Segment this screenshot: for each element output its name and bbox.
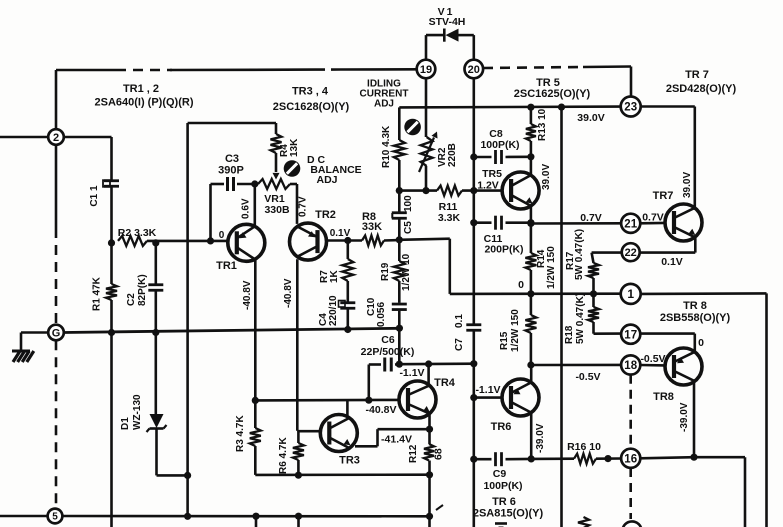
wire R8 right [384, 239, 399, 242]
svg-text:1/2W 150: 1/2W 150 [546, 246, 557, 289]
svg-text:16: 16 [624, 453, 637, 465]
wire C6 left drop [367, 365, 370, 401]
svg-text:R13 10: R13 10 [537, 108, 548, 141]
wire -1.1V segment [399, 362, 474, 365]
svg-text:R10 4.3K: R10 4.3K [381, 125, 392, 168]
svg-text:-40.8V: -40.8V [366, 404, 397, 416]
svg-text:-40.8V: -40.8V [283, 278, 294, 308]
label TR5 [477, 168, 502, 192]
svg-text:1K: 1K [329, 269, 340, 283]
wire 1 to right edge [641, 293, 767, 527]
junction C10 column G-line [396, 325, 403, 332]
wire R4 to wiper arrow [273, 153, 280, 180]
svg-text:39.0V: 39.0V [577, 112, 604, 124]
junction R16 right [604, 455, 611, 462]
junction bias column 5-line [184, 513, 191, 520]
svg-text:200P(K): 200P(K) [484, 244, 523, 256]
svg-text:3.3K: 3.3K [438, 212, 461, 224]
svg-text:220B: 220B [447, 143, 458, 167]
label -39.0V TR8 [679, 402, 690, 432]
wire left arm of node 2 [0, 136, 48, 139]
wire G line [64, 328, 400, 332]
node G [48, 325, 64, 341]
resistor R17 5W 0.47(K) [565, 229, 599, 294]
label 0.6V [241, 198, 252, 219]
wire node19 down [425, 78, 428, 138]
label TR8 [653, 391, 674, 403]
wire C10 to C6 wire [398, 311, 401, 364]
wire 18 to TR8 base [641, 364, 665, 367]
svg-text:R15: R15 [499, 331, 510, 350]
wire G left arm [21, 333, 48, 352]
junction C3 VR1 TR1-emitter [251, 180, 258, 187]
adjust IDLING CURRENT [404, 119, 421, 136]
svg-text:-39.0V: -39.0V [535, 423, 546, 453]
junction C8 left [470, 153, 477, 160]
wire R2-wire to R1 [110, 243, 113, 284]
svg-text:C7: C7 [454, 338, 465, 351]
svg-text:2SA815(O)(Y): 2SA815(O)(Y) [473, 508, 544, 520]
capacitor C3 390P [211, 153, 255, 191]
svg-text:ADJ: ADJ [316, 174, 337, 186]
node 1 [621, 284, 641, 304]
node 20 [465, 60, 484, 79]
svg-text:D1: D1 [120, 417, 131, 430]
junction TR8 collector 16-wire [690, 454, 697, 461]
svg-text:ADJ: ADJ [374, 99, 394, 110]
capacitor C11 200P(K) [474, 216, 531, 256]
wire node 2 to C1 corner [64, 136, 112, 139]
junction R8 at C5 column [396, 236, 403, 243]
label 0 at TR1 base [219, 230, 225, 241]
wire 17 to TR8 emitter [641, 334, 695, 351]
svg-text:R6 4.7K: R6 4.7K [278, 437, 289, 474]
svg-text:0.7V: 0.7V [298, 196, 309, 217]
junction R7 top [344, 237, 351, 244]
transistor TR2 [290, 223, 327, 260]
svg-text:19: 19 [420, 64, 432, 76]
svg-text:2SC1628(O)(Y): 2SC1628(O)(Y) [273, 101, 350, 113]
svg-text:C1 1: C1 1 [89, 185, 100, 207]
junction C8 right [527, 153, 534, 160]
label 0.7V left [580, 212, 602, 224]
label TR2 [315, 209, 336, 221]
resistor R16 10 [567, 441, 601, 464]
node 19 [417, 60, 436, 79]
wire 0.7V to node 21 [531, 222, 621, 225]
svg-text:TR6: TR6 [491, 421, 512, 433]
wire C2 top lead [155, 243, 158, 284]
wire 17-wire left [594, 332, 622, 335]
capacitor partial bottom [495, 524, 507, 527]
transistor TR7 [665, 204, 702, 241]
svg-text:100P(K): 100P(K) [483, 480, 522, 492]
junction TR4 emitter step wire [426, 426, 433, 433]
transistor TR5 [502, 172, 539, 209]
wire stub below 5-line a [255, 516, 258, 527]
capacitor C8 100P(K) [474, 128, 531, 164]
rheostat VR2 220B [419, 132, 458, 173]
node 17 [621, 325, 640, 344]
wire TR5 emitter down [530, 207, 533, 254]
wire emitter rail [255, 473, 429, 476]
junction TR4 collector stub [425, 360, 432, 367]
label -0.5V left [575, 371, 600, 383]
svg-text:TR2: TR2 [315, 209, 336, 221]
potentiometer VR1 330B [258, 179, 297, 216]
resistor R12 68 [408, 444, 445, 463]
svg-text:-41.4V: -41.4V [381, 434, 412, 446]
junction TR1 collector at -40.8V wire [252, 397, 259, 404]
wire top rail from node 2 [56, 70, 116, 137]
junction 0.7V tap [527, 220, 534, 227]
wire R11wire to C5 [398, 191, 401, 212]
wire C1 to R2 wire [110, 188, 113, 244]
junction C11 left [470, 219, 477, 226]
svg-text:1/2W 150: 1/2W 150 [510, 309, 521, 352]
resistor R14 1/2W 150 [525, 246, 557, 289]
label TR1 [216, 260, 237, 272]
diode D1 WZ-130 [120, 394, 167, 432]
capacitor C10 0.056 [366, 297, 407, 327]
label 0.1V TR7 [661, 256, 683, 268]
label 0 at R14 [518, 279, 524, 291]
wire 22-wire left [592, 251, 622, 254]
wire R7 to C4 [346, 281, 349, 302]
wire TR3 emitter step [355, 429, 430, 446]
transistor TR6 [502, 379, 539, 416]
label V1 [429, 6, 466, 28]
junction -1.1V at C7 column [470, 360, 477, 367]
label -39.0V TR6 [535, 423, 546, 453]
label TR3,4 type [273, 86, 350, 114]
wire top rail right [340, 68, 418, 71]
resistor R4 13K [271, 134, 301, 157]
svg-text:STV-4H: STV-4H [429, 16, 466, 28]
junction C11 right [527, 219, 534, 226]
ground [12, 351, 34, 362]
label TR7 [653, 190, 674, 202]
wire G to D1 [155, 333, 158, 415]
svg-text:5: 5 [52, 512, 58, 523]
svg-text:0.7V: 0.7V [642, 212, 664, 224]
svg-text:-1.1V: -1.1V [475, 384, 500, 396]
svg-text:0: 0 [518, 279, 524, 291]
svg-text:17: 17 [624, 329, 637, 341]
svg-text:390P: 390P [218, 165, 244, 177]
resistor R2 3.3K [118, 227, 157, 246]
wire R13 to C8 junction [530, 141, 533, 174]
label -40.8V TR2 [283, 278, 294, 308]
svg-text:R1 47K: R1 47K [92, 276, 103, 311]
resistor R18 5W 0.47(K) [564, 293, 599, 344]
svg-text:0.056: 0.056 [376, 302, 387, 327]
capacitor C7 0.1 [454, 314, 481, 351]
wire R16 to node 16 [596, 457, 622, 460]
transistor TR3 [320, 415, 357, 452]
node bottom partial [622, 521, 641, 527]
svg-text:TR1: TR1 [216, 260, 237, 272]
wire dashed below 16 [629, 468, 632, 519]
resistor R8 33K [362, 236, 384, 246]
svg-text:18: 18 [624, 360, 637, 372]
junction C7 column C9 wire [470, 456, 477, 463]
junction R17R18 0-wire [590, 290, 597, 297]
resistor R3 4.7K [235, 400, 261, 475]
svg-text:TR4: TR4 [434, 377, 456, 389]
resistor R13 zigzag [526, 108, 548, 141]
label 39.0V TR7 [682, 172, 693, 198]
junction R14 0-wire [527, 290, 534, 297]
label -1.1V TR6 [475, 384, 500, 396]
resistor R15 1/2W 150 [499, 294, 536, 352]
wire TR4 collector stub [427, 364, 430, 385]
svg-text:-40.8V: -40.8V [242, 280, 253, 310]
svg-text:2SC1625(O)(Y): 2SC1625(O)(Y) [514, 88, 591, 100]
svg-text:2SD428(O)(Y): 2SD428(O)(Y) [666, 83, 737, 95]
wire 39V rail corner [398, 107, 401, 140]
svg-text:WZ-130: WZ-130 [132, 394, 143, 430]
wire dashed 20 to 23 corner [483, 67, 631, 97]
wire D1 bottom [157, 429, 188, 476]
junction R12 column 5-line [426, 513, 433, 520]
svg-text:39.0V: 39.0V [541, 164, 552, 190]
wire top rail dashed segment [116, 69, 172, 72]
wire 21 to TR7 base [641, 222, 665, 225]
junction C2 G-line [152, 329, 159, 336]
svg-text:TR5: TR5 [482, 168, 502, 180]
svg-text:0.6V: 0.6V [241, 198, 252, 219]
wire TR8 collector down [693, 383, 696, 458]
wire bias column [186, 123, 189, 516]
wire C7 column lower [472, 332, 475, 527]
diode V1 STV-4H [426, 29, 474, 62]
svg-text:C5: C5 [403, 221, 414, 234]
label TR3 [339, 455, 360, 467]
label TR5 type [514, 77, 591, 100]
label 0.1V TR2 base [330, 228, 351, 239]
svg-text:0.7V: 0.7V [580, 212, 602, 224]
svg-text:R18: R18 [564, 325, 575, 344]
label -0.5V TR8 [640, 353, 665, 365]
svg-text:-1.1V: -1.1V [399, 367, 424, 379]
svg-text:R16 10: R16 10 [567, 441, 601, 453]
svg-text:1/2W 10: 1/2W 10 [401, 253, 412, 291]
svg-text:82P(K): 82P(K) [137, 274, 148, 306]
wire dashed 18 to 16 [629, 375, 632, 449]
junction 39V rail output column [558, 104, 565, 111]
wire C2 to G line [155, 292, 158, 333]
wire TR2 base to R8 [327, 239, 363, 242]
wire 5-line left [0, 515, 48, 518]
svg-text:-0.5V: -0.5V [575, 371, 600, 383]
wire R13 top lead [530, 107, 533, 124]
wire TR6 base [474, 396, 502, 399]
svg-text:22P/500(K): 22P/500(K) [361, 346, 415, 358]
wire 16-wire drop right [694, 457, 745, 527]
svg-text:330B: 330B [264, 204, 290, 216]
svg-text:G: G [52, 327, 61, 339]
node 2 [48, 129, 64, 145]
wire TR4 emitter down [428, 414, 431, 527]
svg-text:R2 3.3K: R2 3.3K [118, 227, 157, 239]
label 0.7V TR2 [298, 196, 309, 217]
junction C7 column TR6 base [470, 394, 477, 401]
transistor TR8 [665, 348, 702, 385]
svg-text:C3: C3 [225, 153, 239, 165]
resistor R19 1/2W 10 [380, 253, 412, 291]
capacitor C4 220/10 [318, 295, 355, 326]
junction TR6 collector C9 wire [528, 455, 535, 462]
label 39.0V TR5 [541, 164, 552, 190]
svg-text:TR3: TR3 [339, 455, 360, 467]
junction D1 wire on bias column [184, 472, 191, 479]
svg-text:TR7: TR7 [653, 190, 674, 202]
junction R2 left [108, 239, 115, 246]
junction C4 G-line [344, 326, 351, 333]
label 0 TR8 [698, 337, 704, 349]
capacitor C6 22P/500(K) [369, 358, 400, 372]
capacitor C9 100P(K) [483, 452, 522, 492]
label R8 33K [362, 211, 382, 233]
svg-text:21: 21 [624, 218, 637, 230]
label TR6 [491, 421, 512, 433]
wire TR6 emitter up [530, 365, 533, 382]
junction R10 R11-wire [396, 187, 403, 194]
wire TR4 base wire [255, 399, 398, 402]
svg-text:100: 100 [403, 195, 414, 212]
svg-text:39.0V: 39.0V [682, 172, 693, 198]
wire C3 left drop [209, 184, 212, 241]
junction stub b [295, 513, 302, 520]
resistor R11 3.3K [399, 186, 502, 224]
svg-text:-0.5V: -0.5V [640, 353, 665, 365]
junction C3 drop on base wire [207, 237, 214, 244]
wire dashed column node G to 5 [55, 340, 58, 508]
svg-text:20: 20 [468, 64, 480, 76]
capacitor C1 [89, 180, 119, 206]
svg-text:2SB558(O)(Y): 2SB558(O)(Y) [660, 312, 731, 324]
wire TR1 emitter up [254, 184, 257, 227]
label -40.8V TR1 [242, 280, 253, 310]
junction R13 top [527, 104, 534, 111]
junction 20col R11-wire [470, 187, 477, 194]
svg-text:C2: C2 [126, 293, 137, 306]
wire 5-line right [62, 515, 427, 518]
svg-text:TR1 , 2: TR1 , 2 [123, 83, 159, 95]
label IDLING CURRENT ADJ [360, 79, 409, 110]
wire 0-volt line [450, 292, 621, 295]
svg-text:TR 6: TR 6 [492, 496, 516, 508]
label TR1,2 type [94, 83, 193, 109]
wire top rail middle [170, 68, 316, 71]
svg-text:0.1: 0.1 [454, 314, 465, 328]
label -41.4V [381, 434, 412, 446]
wire VR2 to R11 wire [425, 166, 428, 191]
capacitor C5 100 [392, 195, 414, 234]
wire C9 wire to R16 [531, 457, 574, 460]
wire output column [560, 107, 563, 527]
resistor R7 1K [319, 241, 353, 284]
svg-text:5W 0.47(K): 5W 0.47(K) [574, 229, 585, 280]
resistor partial bottom [578, 517, 589, 527]
wire TR2 collector down [296, 259, 299, 431]
svg-text:TR3 , 4: TR3 , 4 [292, 86, 329, 98]
wire TR3 collector stub [346, 400, 349, 416]
label TR4 [434, 377, 456, 389]
svg-text:33K: 33K [362, 221, 382, 233]
svg-text:2: 2 [53, 132, 59, 144]
svg-text:220/10: 220/10 [328, 295, 339, 326]
node 21 [621, 214, 640, 233]
junction R1 G-line [108, 329, 115, 336]
junction 19col R11-wire [422, 187, 429, 194]
svg-text:0.1V: 0.1V [661, 256, 683, 268]
wire TR6 collector down [530, 414, 533, 459]
junction R12 bottom [426, 471, 433, 478]
wire C9 to TR6 collector [506, 458, 532, 461]
wire R14 to 0 wire [530, 270, 533, 294]
wire R1 to G line [110, 300, 113, 333]
wire R2 to TR1 base [147, 240, 229, 243]
svg-text:TR8: TR8 [653, 391, 674, 403]
svg-text:TR 7: TR 7 [685, 69, 709, 81]
junction TR6 emitter -0.5V wire [527, 361, 534, 368]
wire 23 to TR7 collector [641, 107, 695, 210]
node 23 [621, 97, 641, 117]
svg-text:TR 8: TR 8 [683, 300, 707, 312]
transistor TR1 [228, 224, 265, 261]
transistor TR4 [399, 381, 436, 418]
wire dashed column node 2 to G [55, 145, 58, 325]
svg-text:R12: R12 [408, 444, 419, 463]
wire VR1 right to TR2 emitter [296, 184, 299, 224]
svg-text:1.2V: 1.2V [477, 180, 499, 192]
wire C1 column upper [110, 137, 113, 180]
wire 39V rail [399, 105, 620, 108]
junction C10 column at -1.1V wire [396, 361, 403, 368]
wire R1 column below G [110, 333, 113, 527]
label DC BALANCE ADJ [307, 154, 362, 186]
label TR 8 type [660, 300, 731, 324]
adjust DC BALANCE [284, 160, 301, 177]
svg-text:0: 0 [698, 337, 704, 349]
mark small tick [436, 505, 443, 510]
label 0.7V TR7 [642, 212, 664, 224]
svg-text:R3 4.7K: R3 4.7K [235, 415, 246, 452]
svg-text:22: 22 [625, 247, 637, 259]
wire C4 to G line [346, 310, 349, 330]
svg-text:100P(K): 100P(K) [480, 139, 519, 151]
svg-text:C9: C9 [493, 468, 507, 480]
svg-text:1: 1 [627, 287, 634, 301]
junction C6 drop on TR4 base wire [365, 397, 372, 404]
resistor R6 4.7K [278, 431, 304, 475]
wire TR2 collector corner [297, 429, 298, 432]
label TR 7 type [666, 69, 737, 95]
capacitor C2 82P(K) [126, 274, 163, 306]
wire -0.5V line [531, 364, 622, 367]
svg-text:2SA640(I) (P)(Q)(R): 2SA640(I) (P)(Q)(R) [94, 97, 193, 109]
wire R15 to TR6 emitter [530, 333, 533, 365]
junction C2 top [152, 239, 159, 246]
wire stub below 5-line b [297, 516, 300, 527]
node 18 [621, 355, 640, 374]
resistor R1 47K [92, 276, 118, 311]
junction stub a [252, 513, 259, 520]
wire R10 to R11 wire [398, 160, 401, 191]
wire TR1 collector down [254, 260, 257, 401]
